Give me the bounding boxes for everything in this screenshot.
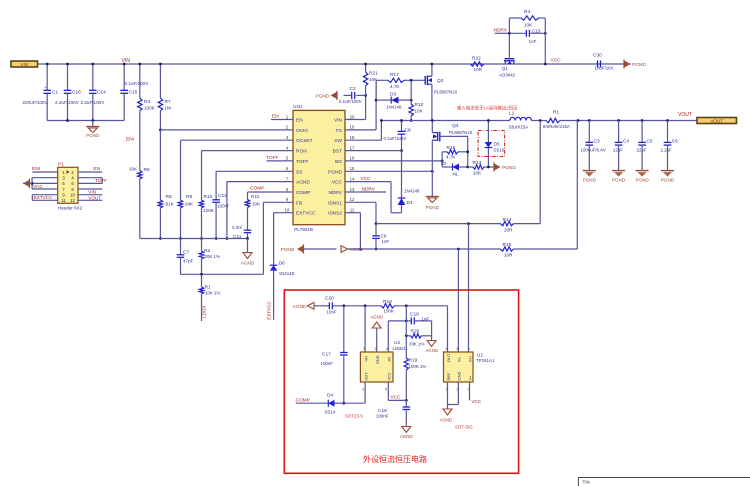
title block — [578, 477, 750, 479]
resistor R15 — [501, 247, 514, 251]
wire bus AGND — [140, 238, 248, 240]
svg-text:C7: C7 — [183, 250, 189, 256]
svg-text:R19: R19 — [409, 358, 418, 364]
svg-text:PGND: PGND — [316, 94, 330, 100]
transistor Q1 — [505, 58, 515, 60]
power PGND right of R13 — [494, 163, 501, 170]
wire AGND pin7 to bus — [227, 181, 293, 183]
svg-text:VIN: VIN — [334, 118, 343, 124]
wire node A vertical — [405, 306, 407, 358]
svg-text:1N4148: 1N4148 — [386, 105, 402, 110]
resistor R8 — [159, 130, 161, 200]
wire R6 to AGND bus — [139, 179, 141, 239]
svg-text:V+: V+ — [468, 375, 473, 381]
resistor R3 — [139, 64, 141, 98]
wire FB line — [181, 273, 264, 275]
capacitor C19 — [406, 320, 411, 322]
wire U3 OUT — [364, 382, 366, 403]
svg-text:R11: R11 — [251, 194, 260, 200]
capacitor C12 — [216, 170, 293, 172]
wire R4 right to rail — [544, 18, 546, 64]
ground AGND right of R20 — [427, 341, 436, 347]
resistor R21 — [365, 64, 367, 72]
svg-text:NDRV: NDRV — [362, 187, 376, 193]
svg-text:C30: C30 — [593, 53, 602, 59]
resistor R17 — [388, 78, 404, 82]
svg-text:C4: C4 — [623, 139, 629, 145]
svg-text:10K: 10K — [473, 171, 482, 176]
svg-text:输入电流低于1A保持输出2恒压: 输入电流低于1A保持输出2恒压 — [457, 105, 518, 112]
svg-text:8mRohm/15A: 8mRohm/15A — [543, 124, 570, 129]
ground PGND under C6 — [661, 170, 674, 172]
wire P1 right pins — [78, 171, 102, 173]
svg-text:U1D: U1D — [293, 104, 303, 110]
svg-text:EXTVCC: EXTVCC — [296, 211, 316, 217]
svg-text:AGND: AGND — [400, 434, 413, 439]
capacitor C5 — [641, 119, 644, 122]
svg-text:PGND: PGND — [328, 169, 342, 175]
svg-text:16: 16 — [350, 156, 355, 161]
svg-text:12: 12 — [350, 197, 355, 202]
svg-text:NDRV: NDRV — [494, 28, 508, 34]
svg-text:VCC: VCC — [332, 180, 343, 186]
resistor R12 — [410, 80, 412, 104]
svg-text:VCC: VCC — [391, 395, 401, 400]
node NDRV top — [495, 32, 510, 34]
resistor R19 — [404, 358, 408, 370]
ground PGND input caps — [92, 121, 94, 127]
svg-text:+: + — [44, 85, 47, 90]
svg-text:10R: 10R — [474, 67, 483, 72]
svg-text:0.1uF/100V: 0.1uF/100V — [339, 99, 362, 104]
ground AGND under C18 — [402, 427, 411, 433]
wire sense tap to U2 IN+ — [467, 222, 470, 225]
svg-text:19: 19 — [350, 125, 355, 130]
svg-text:220uF/100V: 220uF/100V — [23, 100, 49, 105]
svg-text:VOUT: VOUT — [678, 112, 692, 118]
ground AGND above U3 — [372, 322, 381, 328]
wire pin10 EXTVCC — [274, 212, 293, 214]
wire SW pin18 riser — [345, 139, 381, 141]
op-amp U1 PL7901 body — [293, 110, 345, 224]
svg-text:C1: C1 — [52, 90, 58, 96]
capacitor C6 — [666, 119, 669, 122]
wire Q1 gate — [508, 18, 510, 58]
svg-text:VIN: VIN — [122, 58, 131, 64]
svg-text:TOFF: TOFF — [95, 178, 107, 183]
svg-text:ISNS1: ISNS1 — [328, 200, 342, 206]
wire PGND-AGND tie — [304, 248, 337, 250]
svg-text:15: 15 — [350, 166, 355, 171]
wire U3 VCC pin — [387, 382, 389, 400]
wire cap drop x=92.8 — [92, 64, 94, 90]
svg-text:PGND: PGND — [661, 178, 675, 183]
wire U3 -IN feedback — [387, 321, 389, 352]
svg-text:R18: R18 — [383, 299, 392, 305]
svg-text:100K: 100K — [144, 106, 156, 111]
svg-text:R9: R9 — [186, 194, 192, 200]
svg-text:VIN: VIN — [20, 62, 28, 67]
svg-text:C8: C8 — [405, 128, 411, 134]
wire output rail — [560, 120, 697, 122]
svg-text:D3: D3 — [390, 92, 396, 98]
svg-text:10: 10 — [285, 208, 290, 213]
svg-text:C17: C17 — [322, 352, 331, 358]
wire pin5 TOFF stub — [267, 160, 294, 162]
capacitor C18 — [405, 400, 407, 407]
svg-text:1N4148: 1N4148 — [279, 271, 295, 276]
resistor R14 — [501, 221, 514, 225]
svg-text:C15: C15 — [129, 90, 138, 96]
svg-text:SS16: SS16 — [494, 148, 505, 153]
svg-text:EXTVCC: EXTVCC — [267, 300, 272, 319]
svg-text:FB: FB — [296, 200, 302, 206]
svg-text:10K: 10K — [252, 202, 261, 207]
power PGND at C2 — [331, 92, 338, 99]
svg-text:ENI: ENI — [32, 166, 40, 172]
capacitor C2 — [356, 94, 365, 96]
node NDRV pin13 — [345, 191, 386, 193]
svg-text:GND: GND — [457, 372, 462, 381]
svg-text:D5: D5 — [494, 142, 500, 147]
resistor R7 — [159, 64, 161, 98]
svg-text:AGND: AGND — [425, 348, 438, 353]
svg-text:18: 18 — [350, 135, 355, 140]
wire VIN pin20 riser — [345, 119, 366, 121]
op-amp U3 LM321 — [360, 352, 393, 382]
svg-text:COMP: COMP — [296, 190, 310, 196]
svg-text:1: 1 — [362, 388, 364, 392]
wire ISNS1 pin12 — [345, 201, 376, 203]
wire L1 to shunt — [531, 120, 546, 122]
svg-text:PGND: PGND — [281, 247, 295, 253]
svg-text:11: 11 — [350, 208, 355, 213]
svg-text:Q2: Q2 — [437, 78, 444, 84]
power PGND at P1 — [23, 180, 30, 187]
svg-text:R13: R13 — [473, 160, 482, 166]
svg-text:100K 1%: 100K 1% — [409, 364, 427, 369]
svg-text:1nF: 1nF — [529, 39, 537, 44]
svg-text:100nF: 100nF — [376, 414, 389, 419]
capacitor C20 — [314, 305, 330, 307]
svg-text:PL8087N10: PL8087N10 — [434, 90, 458, 95]
svg-text:AGND: AGND — [293, 304, 307, 310]
svg-text:2.2uF/100V: 2.2uF/100V — [55, 100, 80, 105]
svg-text:R17: R17 — [390, 72, 399, 78]
svg-text:1nF: 1nF — [422, 317, 430, 322]
svg-text:10: 10 — [70, 193, 75, 198]
wire gate line Q2 — [376, 79, 388, 81]
wire BG pin16 line — [345, 160, 442, 162]
svg-text:外设恒流恒压电路: 外设恒流恒压电路 — [363, 454, 427, 464]
svg-text:0.1uF/100V: 0.1uF/100V — [125, 81, 150, 86]
resistor R10 — [202, 150, 294, 152]
svg-text:R6: R6 — [144, 167, 150, 173]
ground PGND under C3 — [583, 170, 596, 172]
svg-text:100K: 100K — [384, 309, 394, 314]
svg-text:ENI: ENI — [126, 137, 134, 143]
svg-text:10K: 10K — [369, 77, 378, 82]
svg-text:EXTVCC: EXTVCC — [34, 195, 53, 200]
svg-text:VCC: VCC — [551, 58, 562, 64]
svg-text:C13: C13 — [532, 29, 541, 35]
resistor R20 — [406, 335, 410, 337]
svg-text:10uF/16V: 10uF/16V — [595, 66, 614, 71]
svg-text:PGND: PGND — [612, 178, 626, 183]
connector P1 header — [58, 167, 78, 203]
svg-text:D6: D6 — [279, 261, 285, 267]
capacitor C8 bootstrap — [401, 121, 403, 132]
svg-text:R4: R4 — [524, 9, 530, 15]
svg-text:REF: REF — [446, 372, 451, 381]
wire sense tap to U2 IN- — [457, 249, 459, 352]
svg-text:R8: R8 — [166, 194, 172, 200]
wire cap drop x=47.2 — [46, 64, 48, 90]
capacitor C17 — [343, 306, 345, 353]
svg-text:ISNS2: ISNS2 — [328, 211, 342, 217]
svg-text:C19: C19 — [410, 312, 419, 318]
svg-text:TOFF: TOFF — [296, 159, 309, 165]
svg-text:U3: U3 — [394, 340, 400, 345]
resistor R13 — [468, 166, 473, 168]
svg-text:Title: Title — [582, 480, 591, 485]
capacitor C4 — [617, 119, 620, 122]
svg-text:IN-: IN- — [457, 356, 462, 362]
diode D4 — [296, 402, 329, 404]
ground AGND below bus — [247, 239, 249, 253]
wire ISNS1 sense line — [376, 223, 501, 225]
svg-text:10K 1%: 10K 1% — [205, 291, 220, 296]
svg-text:0.1uF/100V: 0.1uF/100V — [384, 136, 407, 141]
svg-text:VOUT: VOUT — [88, 195, 101, 200]
svg-text:AGND: AGND — [349, 247, 363, 253]
wire U2 V+ pin — [469, 382, 471, 400]
inductor L1 — [510, 117, 532, 120]
ground PGND under C5 — [636, 170, 649, 172]
svg-text:100nF: 100nF — [321, 361, 334, 366]
capacitor C13 — [509, 32, 526, 34]
capacitor C15 — [120, 89, 128, 91]
wire pin1 EN stub — [271, 119, 293, 121]
svg-text:NL: NL — [453, 172, 459, 177]
wire P1 left pins — [32, 171, 57, 173]
svg-text:PGND: PGND — [632, 62, 646, 68]
svg-text:EN: EN — [272, 114, 279, 120]
svg-text:2.2uF: 2.2uF — [661, 148, 673, 153]
svg-text:PL8087N10: PL8087N10 — [449, 130, 473, 135]
svg-text:AGND: AGND — [241, 261, 255, 266]
port VIN — [11, 61, 38, 67]
svg-text:PGND: PGND — [426, 205, 440, 210]
capacitor C11 — [247, 208, 249, 231]
svg-text:VCC: VCC — [472, 399, 482, 404]
svg-text:C6: C6 — [672, 139, 678, 145]
svg-text:TG: TG — [335, 128, 342, 134]
wire U3 +IN riser — [364, 306, 366, 352]
resistor R1 shunt — [546, 118, 560, 122]
resistor R11 — [248, 191, 294, 193]
port VOUT — [697, 118, 737, 124]
svg-text:4.7K: 4.7K — [390, 84, 400, 89]
svg-text:1000uF/6.4V: 1000uF/6.4V — [581, 148, 606, 153]
ground PGND under C4 — [612, 170, 625, 172]
svg-text:4: 4 — [468, 347, 470, 351]
svg-text:GND: GND — [376, 355, 380, 364]
svg-text:1M: 1M — [165, 106, 172, 111]
svg-text:OCSET: OCSET — [296, 138, 313, 144]
wire ISNS2 pin11 — [345, 212, 360, 214]
svg-text:P1: P1 — [58, 162, 64, 168]
transistor Q3 — [431, 121, 433, 133]
resistor R6 — [138, 171, 142, 180]
power PGND below Q3 — [426, 196, 439, 198]
resistor R18 — [381, 304, 395, 308]
svg-text:10nF: 10nF — [327, 310, 337, 315]
wire Q3 gate drop — [467, 136, 469, 167]
svg-text:R15: R15 — [503, 242, 512, 248]
svg-text:5: 5 — [385, 388, 387, 392]
svg-text:C14: C14 — [97, 90, 106, 96]
svg-text:10K: 10K — [524, 23, 533, 28]
svg-text:SOT-363: SOT-363 — [455, 425, 473, 430]
svg-text:R16: R16 — [447, 145, 456, 151]
capacitor C1 — [43, 89, 51, 91]
svg-text:C5: C5 — [646, 139, 652, 145]
svg-text:RON: RON — [296, 149, 307, 155]
svg-text:3: 3 — [363, 347, 365, 351]
svg-text:5: 5 — [457, 347, 459, 351]
svg-text:14: 14 — [350, 176, 355, 181]
svg-text:C3: C3 — [594, 139, 600, 145]
svg-text:PGND: PGND — [86, 133, 100, 138]
svg-text:BG: BG — [335, 159, 342, 165]
svg-text:COMP: COMP — [296, 398, 310, 404]
svg-text:R21: R21 — [369, 71, 378, 77]
node LDOX — [201, 294, 203, 321]
svg-text:Q3: Q3 — [452, 123, 459, 129]
diode D6 — [270, 265, 278, 270]
svg-text:10R: 10R — [504, 253, 513, 258]
wire SW line — [381, 120, 509, 122]
svg-text:R7: R7 — [165, 99, 171, 105]
svg-text:OUT: OUT — [364, 372, 368, 381]
svg-text:C11: C11 — [233, 234, 242, 240]
diode D5 with red dashed box — [478, 131, 505, 157]
capacitor C3 — [588, 119, 591, 122]
svg-text:U2: U2 — [477, 353, 483, 358]
svg-text:AGND: AGND — [370, 315, 383, 320]
svg-text:COMP: COMP — [250, 186, 264, 192]
capacitor C14 — [89, 89, 97, 91]
svg-text:R12: R12 — [415, 102, 424, 108]
svg-text:R20: R20 — [411, 329, 420, 335]
power AGND tie — [341, 246, 348, 253]
svg-text:120K: 120K — [203, 208, 215, 213]
svg-text:BST: BST — [333, 149, 342, 155]
wire VIN rail — [38, 63, 632, 65]
resistor R4 — [509, 17, 520, 19]
wire cap drop x=124.2 — [123, 64, 125, 90]
svg-text:Header 6X2: Header 6X2 — [58, 206, 83, 211]
svg-text:TP181A1: TP181A1 — [476, 358, 495, 363]
wire BST pin17 line — [345, 150, 402, 152]
svg-text:SS: SS — [296, 169, 302, 175]
wire U2 OUT riser — [447, 306, 449, 352]
svg-text:R1: R1 — [553, 110, 559, 116]
svg-text:SS14: SS14 — [325, 410, 336, 415]
svg-text:11: 11 — [61, 198, 66, 203]
svg-text:R14: R14 — [503, 217, 512, 223]
ground AGND under U2 — [447, 405, 449, 410]
wire cap drop x=67.5 — [67, 64, 69, 90]
svg-text:VCC: VCC — [361, 176, 372, 182]
svg-text:2: 2 — [375, 347, 377, 351]
svg-text:33K 1%: 33K 1% — [409, 342, 424, 347]
svg-text:D1: D1 — [407, 200, 413, 206]
resistor R1 lower — [201, 274, 203, 287]
capacitor C9 — [375, 224, 377, 236]
svg-text:91K: 91K — [166, 202, 175, 207]
svg-text:C20: C20 — [325, 296, 334, 302]
capacitor C7 — [180, 239, 182, 255]
wire OVIO pin2 line — [160, 129, 293, 131]
svg-text:PGND: PGND — [502, 165, 516, 171]
svg-text:VCC: VCC — [388, 372, 392, 380]
svg-text:PL7901B: PL7901B — [294, 227, 313, 232]
svg-text:R22: R22 — [472, 56, 481, 62]
svg-text:C9: C9 — [381, 234, 387, 239]
svg-text:12: 12 — [70, 198, 75, 203]
power AGND in box — [308, 302, 315, 309]
resistor R22 — [470, 62, 484, 66]
wire input caps bottom — [47, 120, 124, 122]
svg-text:+IN: +IN — [364, 356, 368, 362]
svg-text:3.3nf: 3.3nf — [232, 225, 243, 230]
svg-text:20: 20 — [350, 114, 355, 119]
resistor R9 — [181, 139, 294, 141]
capacitor C16 — [64, 89, 72, 91]
svg-text:LDOX: LDOX — [202, 305, 207, 318]
svg-text:AGND: AGND — [296, 180, 310, 186]
diode D3 — [375, 80, 377, 100]
svg-text:VIN: VIN — [88, 190, 96, 195]
wire C19 R20 right to AGND — [431, 321, 433, 341]
svg-text:-IN: -IN — [388, 357, 392, 362]
wire TG riser — [345, 129, 376, 131]
svg-text:C16: C16 — [72, 90, 81, 96]
svg-text:13: 13 — [350, 187, 355, 192]
op-amp U2 TP181A1 — [444, 352, 474, 382]
capacitor C30 — [597, 61, 599, 68]
resistor R16 — [442, 151, 447, 153]
wire U2 gnd pins — [447, 382, 449, 405]
svg-text:PGND: PGND — [583, 178, 597, 183]
svg-text:SOT23-5: SOT23-5 — [345, 414, 363, 419]
resistor R2 — [201, 239, 203, 252]
svg-text:D4: D4 — [327, 393, 333, 399]
wire R7 to OVIO node — [159, 111, 161, 130]
svg-text:1N4148: 1N4148 — [404, 189, 420, 194]
svg-text:R3: R3 — [144, 99, 150, 105]
svg-text:C2: C2 — [350, 86, 356, 92]
svg-text:Q1: Q1 — [502, 66, 509, 72]
svg-text:10R: 10R — [504, 228, 513, 233]
svg-text:C12: C12 — [218, 193, 227, 199]
svg-text:NDRV: NDRV — [328, 190, 342, 196]
svg-text:17: 17 — [350, 145, 355, 150]
svg-text:IN+: IN+ — [468, 355, 473, 362]
transistor Q2 — [424, 76, 426, 85]
